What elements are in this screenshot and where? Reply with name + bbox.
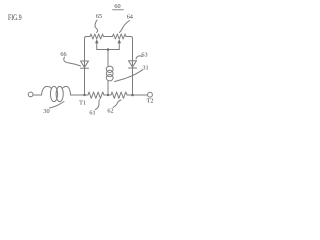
svg-text:30: 30 <box>43 108 49 115</box>
svg-text:T2: T2 <box>147 98 154 105</box>
svg-text:60: 60 <box>114 3 120 10</box>
svg-text:64: 64 <box>127 14 133 21</box>
svg-text:65: 65 <box>96 13 102 20</box>
svg-text:31: 31 <box>142 65 148 72</box>
svg-text:T1: T1 <box>79 100 86 107</box>
svg-text:62: 62 <box>107 108 113 115</box>
svg-text:FIG.9: FIG.9 <box>8 13 22 22</box>
svg-text:61: 61 <box>89 110 95 117</box>
svg-text:63: 63 <box>141 52 147 59</box>
svg-text:66: 66 <box>60 51 66 58</box>
